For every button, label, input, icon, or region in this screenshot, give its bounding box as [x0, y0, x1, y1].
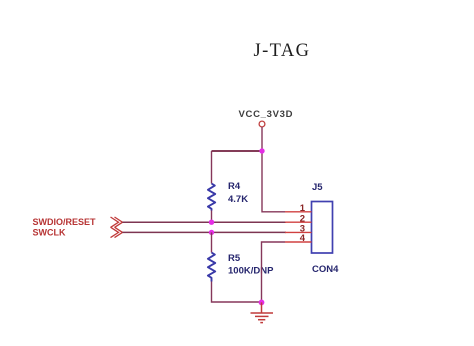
svg-text:J5: J5 — [312, 182, 323, 193]
off-page connector chevron SWCLK — [111, 227, 123, 237]
wire VCC circle to junction — [261, 127, 263, 151]
power symbol VCC_3V3D circle — [259, 121, 265, 127]
wire pin 4 down to ground junction — [262, 242, 286, 302]
pin stub 4 — [285, 241, 312, 243]
svg-text:VCC_3V3D: VCC_3V3D — [239, 109, 294, 120]
resistor R4 — [208, 184, 215, 211]
wire R4 bottom to SWDIO wire — [211, 211, 213, 223]
wire SWCLK to connector pin 3 — [123, 231, 287, 233]
wire R5 top from SWCLK wire — [211, 232, 213, 252]
svg-text:1: 1 — [300, 203, 306, 214]
svg-text:100K/DNP: 100K/DNP — [228, 266, 274, 277]
svg-text:CON4: CON4 — [312, 264, 339, 275]
pin stub 3 — [285, 231, 312, 233]
wire SWDIO/RESET to connector pin 2 — [123, 221, 287, 223]
wire R5 bottom to ground junction — [212, 282, 262, 303]
svg-text:SWDIO/RESET: SWDIO/RESET — [33, 217, 97, 227]
junction VCC node — [259, 148, 264, 153]
connector J5 body — [312, 202, 333, 254]
pin stub 1 — [285, 211, 312, 213]
svg-text:R5: R5 — [228, 253, 241, 264]
junction R5 top on SWCLK wire — [209, 230, 214, 235]
junction ground node — [259, 300, 265, 306]
off-page connector chevron SWDIO/RESET — [111, 217, 123, 227]
junction R4 bottom on SWDIO wire — [209, 220, 214, 225]
svg-text:R4: R4 — [228, 181, 241, 192]
svg-text:J-TAG: J-TAG — [254, 41, 311, 61]
svg-text:4: 4 — [300, 233, 306, 244]
svg-text:SWCLK: SWCLK — [33, 228, 66, 238]
resistor R5 — [208, 253, 215, 282]
pin stub 2 — [285, 221, 312, 223]
wire junction left to R4 branch — [212, 150, 263, 152]
wire VCC junction down right side to pin 1 — [262, 151, 285, 212]
wire down to R4 top — [211, 151, 213, 184]
svg-text:4.7K: 4.7K — [228, 194, 248, 205]
ground — [251, 302, 274, 322]
